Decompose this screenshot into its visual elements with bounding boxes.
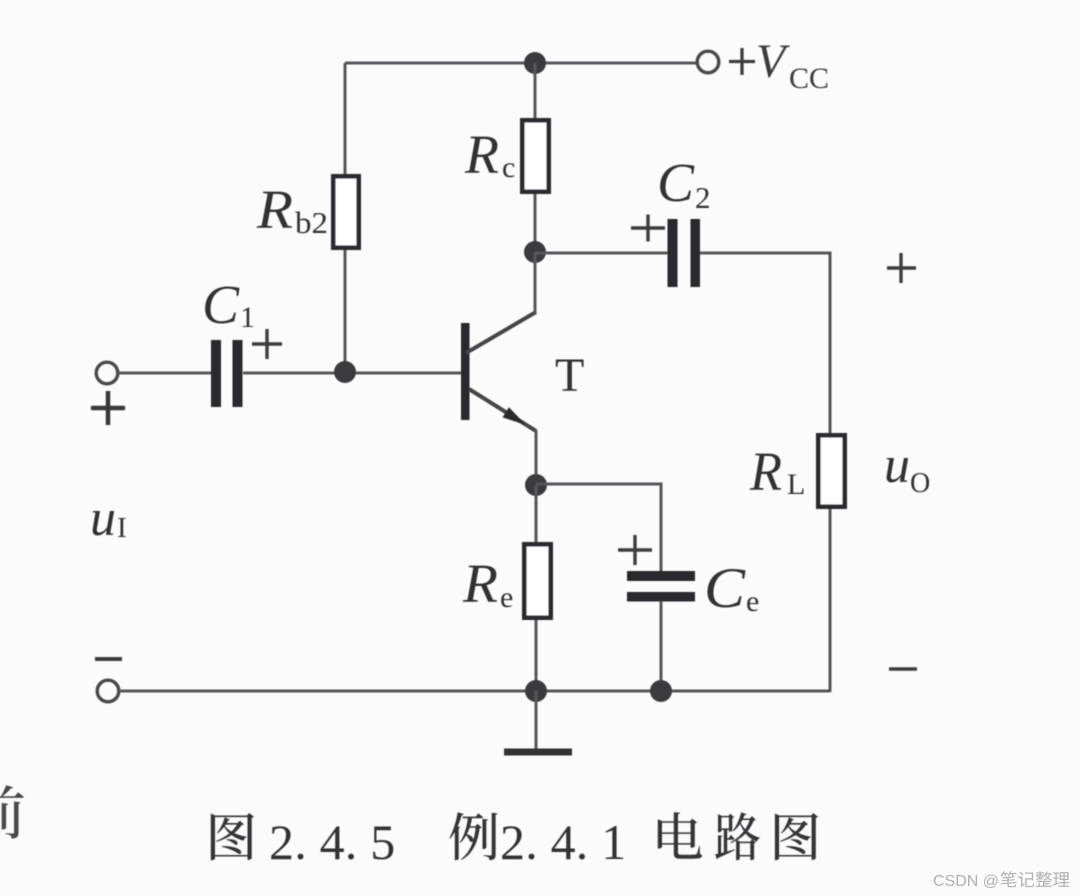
caption 图 2.4.5 例 2.4.1 电路图 — [211, 812, 818, 870]
svg-text:T: T — [555, 349, 584, 402]
wire emitter to Ce — [536, 484, 661, 572]
transistor T base bar — [461, 323, 470, 420]
svg-text:u: u — [884, 437, 910, 494]
label Rc — [464, 124, 515, 185]
label uI — [90, 490, 127, 547]
label minus input — [95, 657, 122, 661]
svg-text:V: V — [756, 35, 790, 88]
resistor RL — [818, 435, 844, 506]
svg-text:R: R — [462, 553, 498, 614]
wire bottom rail — [119, 690, 830, 693]
wire RL bottom — [829, 509, 832, 692]
svg-text:e: e — [500, 581, 513, 614]
node top-rail junction — [524, 52, 546, 74]
wire Rc bottom — [534, 194, 537, 254]
svg-text:2: 2 — [695, 180, 711, 215]
svg-text:L: L — [787, 468, 805, 501]
wire Rc top — [534, 63, 537, 120]
svg-text:u: u — [90, 490, 116, 547]
label Ce — [704, 557, 759, 620]
wire collector vertical — [534, 253, 537, 313]
wire emitter vertical — [535, 430, 538, 487]
watermark CSDN — [933, 871, 1069, 890]
svg-text:2. 4. 5: 2. 4. 5 — [269, 814, 395, 870]
label Re — [462, 553, 513, 614]
capacitor C1 — [211, 340, 243, 407]
node bottom rail right junction — [650, 680, 672, 702]
svg-text:b2: b2 — [295, 205, 328, 240]
terminal input bottom — [97, 680, 119, 702]
terminal +Vcc — [697, 51, 719, 73]
label C1 — [202, 274, 255, 335]
wire Re bottom — [535, 620, 538, 692]
node emitter junction — [525, 474, 547, 496]
wire input to C1 — [118, 372, 212, 375]
svg-text:2. 4. 1: 2. 4. 1 — [500, 814, 626, 870]
wire top rail — [345, 62, 696, 65]
label Rb2 — [256, 179, 328, 240]
node bottom rail left junction — [525, 680, 547, 702]
capacitor C2 — [668, 219, 701, 287]
label minus output — [889, 667, 917, 670]
svg-text:C: C — [657, 152, 695, 213]
resistor Rb2 — [333, 176, 358, 247]
transistor T emitter lead with arrow — [469, 389, 536, 431]
svg-text:R: R — [749, 441, 782, 502]
label C2 — [657, 152, 711, 215]
svg-text:O: O — [910, 468, 930, 499]
wire C1 to base — [243, 372, 463, 375]
svg-text:1: 1 — [240, 301, 255, 334]
svg-text:I: I — [117, 512, 127, 544]
wire Rb2 bottom — [344, 250, 347, 372]
label plus at Ce — [618, 535, 652, 565]
wire Re top — [535, 485, 538, 544]
label plus output — [887, 253, 916, 283]
label +Vcc — [729, 35, 829, 95]
wire Ce bottom — [660, 601, 663, 692]
label plus input — [91, 391, 125, 425]
resistor Re — [524, 544, 550, 617]
node base junction — [334, 361, 356, 383]
terminal input top — [96, 362, 118, 384]
ground — [504, 749, 572, 756]
svg-text:e: e — [746, 585, 759, 618]
label uO — [884, 437, 930, 499]
svg-text:C: C — [202, 274, 240, 335]
wire C2 to output corner — [700, 253, 830, 435]
svg-text:c: c — [502, 151, 515, 184]
svg-text:C: C — [704, 557, 746, 620]
transistor T collector lead — [466, 312, 536, 353]
node collector junction — [524, 241, 546, 263]
label RL — [749, 441, 805, 502]
wire Rb2 top — [344, 63, 347, 176]
label plus at C2 — [631, 215, 665, 242]
capacitor Ce — [627, 571, 695, 602]
svg-text:CSDN @: CSDN @ — [933, 873, 999, 890]
svg-text:R: R — [464, 124, 499, 185]
resistor Rc — [522, 120, 548, 191]
svg-text:R: R — [256, 179, 293, 240]
wire collector to C2 — [535, 252, 668, 255]
label partial character left edge — [0, 785, 24, 839]
label plus at C1 — [252, 329, 282, 359]
wire to ground — [535, 691, 538, 750]
svg-text:CC: CC — [789, 62, 829, 95]
